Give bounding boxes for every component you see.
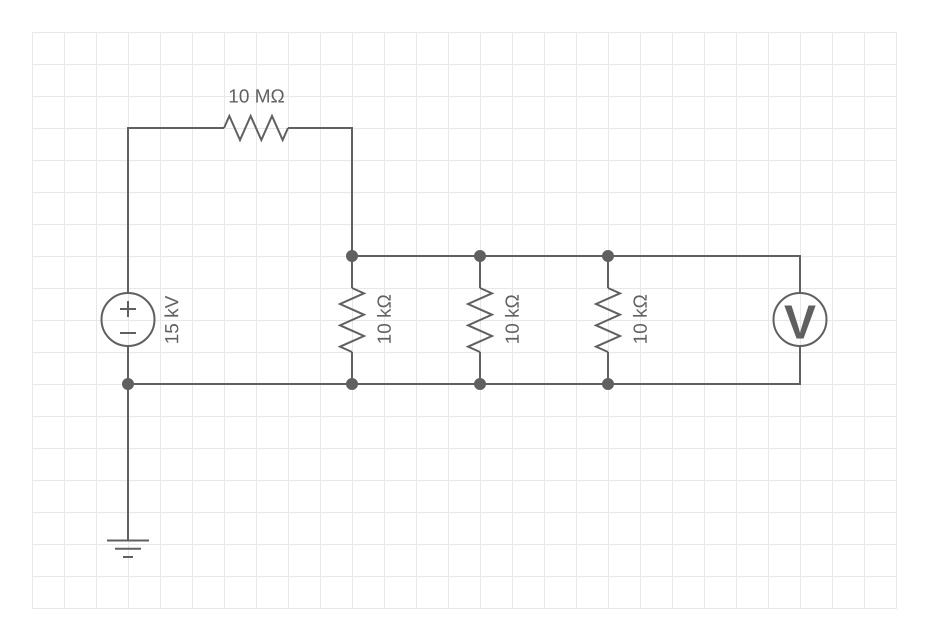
- label R4 value 10 kΩ: [633, 295, 647, 343]
- resistor R3: [468, 256, 492, 384]
- resistor R2: [340, 256, 364, 384]
- resistor R1: [224, 116, 288, 140]
- node D junction: [602, 250, 614, 262]
- wire source top to R1 left: [128, 128, 224, 293]
- resistor R4: [596, 256, 620, 384]
- wire R1 right to node B: [288, 128, 352, 256]
- node A (R2 bottom) junction: [346, 378, 358, 390]
- wire ground lead: [127, 384, 129, 541]
- node A junction: [122, 378, 134, 390]
- label R3 value 10 kΩ: [505, 295, 519, 343]
- label V1 value 15 kV: [164, 296, 178, 343]
- node A (R3 bottom) junction: [474, 378, 486, 390]
- voltmeter M1: [774, 293, 827, 346]
- node C junction: [474, 250, 486, 262]
- label R1 value 10 MΩ: [230, 89, 284, 102]
- node B junction: [346, 250, 358, 262]
- node A (R4 bottom) junction: [602, 378, 614, 390]
- label R2 value 10 kΩ: [377, 295, 391, 343]
- voltage source V1: [102, 293, 155, 346]
- wire top bus node B to voltmeter: [352, 256, 800, 293]
- wire source bottom to node A: [127, 346, 129, 384]
- wire bottom bus voltmeter to node A: [128, 346, 800, 384]
- ground: [107, 541, 149, 558]
